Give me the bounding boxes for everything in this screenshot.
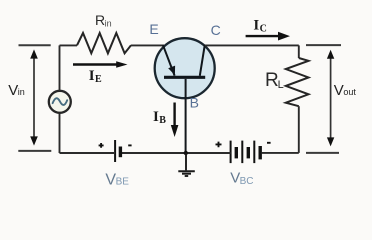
- minus sign V_BC: [267, 142, 271, 144]
- svg-text:E: E: [149, 21, 158, 37]
- transistor base lead: [185, 79, 187, 153]
- resistor R_L zigzag: [286, 58, 309, 106]
- svg-text:out: out: [343, 87, 356, 97]
- svg-text:C: C: [211, 22, 221, 38]
- V_out up arrowhead: [327, 50, 334, 59]
- ac source V_in circle: [49, 91, 71, 113]
- resistor R_in zigzag: [77, 33, 131, 53]
- V_out marker arrow line: [330, 53, 332, 140]
- transistor emitter line: [163, 45, 175, 75]
- svg-text:B: B: [190, 95, 199, 111]
- minus sign V_BE: [128, 144, 131, 146]
- svg-text:in: in: [18, 87, 25, 97]
- wire bottom left: [60, 152, 116, 154]
- arrow I_B: [173, 103, 175, 127]
- svg-text:V: V: [334, 82, 344, 99]
- ac source sine: [53, 98, 68, 105]
- wire bottom right: [262, 152, 299, 154]
- transistor emitter arrowhead: [168, 66, 175, 76]
- svg-text:BC: BC: [240, 176, 254, 187]
- junction dot base: [184, 151, 188, 155]
- V_out marker top bar: [306, 44, 341, 46]
- V_in marker top bar: [19, 44, 51, 46]
- transistor collector line: [200, 45, 205, 76]
- wire collector to corner: [205, 44, 299, 46]
- svg-text:BE: BE: [116, 177, 130, 188]
- arrow I_E: [73, 63, 117, 65]
- svg-text:R: R: [95, 12, 105, 28]
- wire between batteries: [122, 152, 231, 154]
- wire left vertical bottom: [59, 113, 61, 153]
- svg-text:I: I: [253, 17, 259, 33]
- V_in down arrowhead: [30, 136, 38, 145]
- wire resistor to transistor: [131, 44, 164, 46]
- svg-text:E: E: [95, 74, 102, 85]
- plus sign V_BC: [216, 142, 222, 148]
- svg-text:L: L: [278, 79, 284, 91]
- svg-text:B: B: [159, 115, 166, 126]
- svg-text:I: I: [153, 109, 159, 125]
- transistor Q1 circle: [155, 38, 215, 98]
- transistor base bar: [164, 76, 205, 79]
- V_out marker bottom bar: [306, 152, 339, 154]
- wire left vertical top: [59, 45, 61, 91]
- svg-text:in: in: [105, 19, 112, 29]
- svg-text:C: C: [260, 23, 267, 34]
- V_in marker arrow line: [33, 52, 35, 142]
- wire right vertical top: [298, 45, 300, 58]
- wire top-left segment: [60, 44, 78, 46]
- battery V_BC plates: [231, 141, 261, 164]
- V_in marker bottom bar: [18, 150, 51, 152]
- plus sign V_BE: [99, 143, 104, 148]
- svg-text:V: V: [8, 82, 18, 99]
- V_out down arrowhead: [327, 137, 334, 146]
- ground: [178, 153, 195, 176]
- svg-text:I: I: [89, 68, 95, 84]
- arrow I_C: [246, 35, 279, 37]
- wire right vertical bottom: [298, 106, 300, 153]
- V_in up arrowhead: [30, 49, 38, 58]
- battery V_BE plates: [115, 140, 120, 162]
